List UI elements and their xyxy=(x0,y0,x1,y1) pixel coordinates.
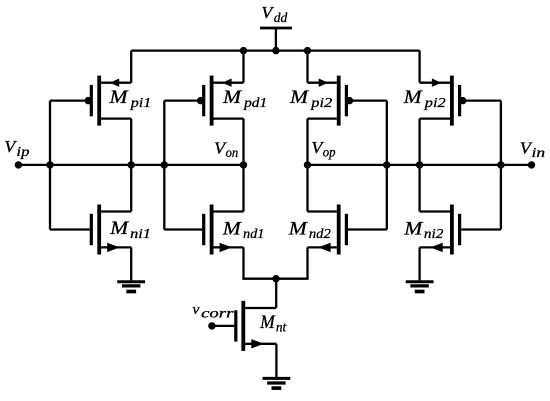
svg-text:M: M xyxy=(289,88,309,108)
wire Mpi2/Mnd2 drain riser xyxy=(306,119,308,212)
svg-text:op: op xyxy=(323,144,336,160)
svg-text:ip: ip xyxy=(16,144,29,159)
node tail junction xyxy=(272,275,279,282)
transistor Mnd2 (NMOS, mirrored) xyxy=(308,205,387,255)
node junction Mnd2 gate riser xyxy=(383,161,390,168)
svg-text:on: on xyxy=(226,145,239,161)
svg-text:ni1: ni1 xyxy=(130,226,151,242)
transistor Mni2 (NMOS, mirrored) xyxy=(420,205,501,255)
terminal Vin xyxy=(528,161,535,168)
node junction on rail (Vdd tap) xyxy=(272,47,279,54)
transistor Mni1 (NMOS) xyxy=(50,205,131,255)
wire Mpi2/Mni2 gate riser xyxy=(500,101,502,230)
svg-text:pi2: pi2 xyxy=(310,95,332,111)
svg-text:M: M xyxy=(109,218,129,238)
svg-text:ni2: ni2 xyxy=(424,227,443,242)
transistor Mpi2 outer (PMOS, mirrored) xyxy=(420,76,501,126)
svg-text:in: in xyxy=(532,146,546,161)
wire rail down to Mpd1 source xyxy=(242,51,244,83)
svg-text:nd2: nd2 xyxy=(309,226,331,242)
wire Mnd2 source to tail node xyxy=(276,247,308,278)
wire Mpd1/Mnd1 gate riser xyxy=(163,101,165,230)
terminal vcorr xyxy=(208,322,215,329)
svg-text:M: M xyxy=(288,219,308,239)
wire Mpi2/Mni2 drain riser xyxy=(418,119,420,212)
wire rail down to inner Mpi2 source xyxy=(306,51,308,83)
wire Mpi2/Mnd2 gate riser xyxy=(386,101,388,230)
svg-text:pi2: pi2 xyxy=(424,95,446,111)
transistor Mnd1 (NMOS) xyxy=(164,205,243,255)
wire rail-end down to Mpi1 source xyxy=(130,51,132,83)
transistor Mpd1 (PMOS) xyxy=(164,76,243,126)
svg-text:dd: dd xyxy=(274,10,288,25)
wire Mni1 source down xyxy=(130,247,132,280)
node junction Mpd1 gate riser xyxy=(161,161,168,168)
power supply Vdd symbol xyxy=(260,28,292,51)
wire rail-end down to outer Mpi2 source xyxy=(418,51,420,83)
node junction Vop xyxy=(304,161,311,168)
svg-text:corr: corr xyxy=(201,305,234,321)
wire Mnd1 source to tail node xyxy=(244,247,277,278)
node junction Mpi2 drain riser xyxy=(416,161,423,168)
wire Mpi1/Mni1 drain riser xyxy=(130,119,132,212)
wire Mnt source down xyxy=(275,344,277,377)
svg-text:nd1: nd1 xyxy=(243,226,264,242)
wire Mpd1/Mnd1 drain riser xyxy=(242,119,244,212)
svg-text:M: M xyxy=(222,88,242,108)
wire tail node down to Mnt drain xyxy=(275,279,277,308)
svg-text:M: M xyxy=(222,219,242,239)
node junction on rail (Mpi2 source) xyxy=(304,47,311,54)
ground under Mnt xyxy=(263,378,291,388)
ground under Mni1 xyxy=(117,282,145,292)
wire right mid rail (Vop node to Vin) xyxy=(308,164,532,166)
ground under Mni2 xyxy=(406,282,434,292)
wire Mni2 source down xyxy=(418,247,420,280)
transistor Mpi1 (PMOS) xyxy=(50,76,131,126)
node junction Von xyxy=(240,161,247,168)
svg-text:pd1: pd1 xyxy=(243,96,267,111)
wire left mid rail (Vip to Von node) xyxy=(18,164,243,166)
svg-text:v: v xyxy=(192,301,199,318)
svg-text:M: M xyxy=(403,219,423,239)
terminal Vip xyxy=(15,161,22,168)
wire Mpi1/Mni1 gate riser xyxy=(49,101,51,230)
svg-text:M: M xyxy=(259,311,276,332)
node junction Mni2 gate riser xyxy=(497,161,504,168)
node junction on rail (Mpd1 source) xyxy=(240,47,247,54)
svg-text:pi1: pi1 xyxy=(130,96,152,111)
wire top supply rail xyxy=(131,49,419,51)
node junction Vip/gate riser xyxy=(46,161,53,168)
svg-text:nt: nt xyxy=(276,319,288,334)
svg-text:M: M xyxy=(403,88,423,108)
transistor Mpi2 inner (PMOS, mirrored) xyxy=(308,76,387,126)
svg-text:M: M xyxy=(108,88,128,108)
node junction Mpi1 drain riser xyxy=(128,161,135,168)
transistor Mnt (NMOS tail) xyxy=(212,301,277,351)
